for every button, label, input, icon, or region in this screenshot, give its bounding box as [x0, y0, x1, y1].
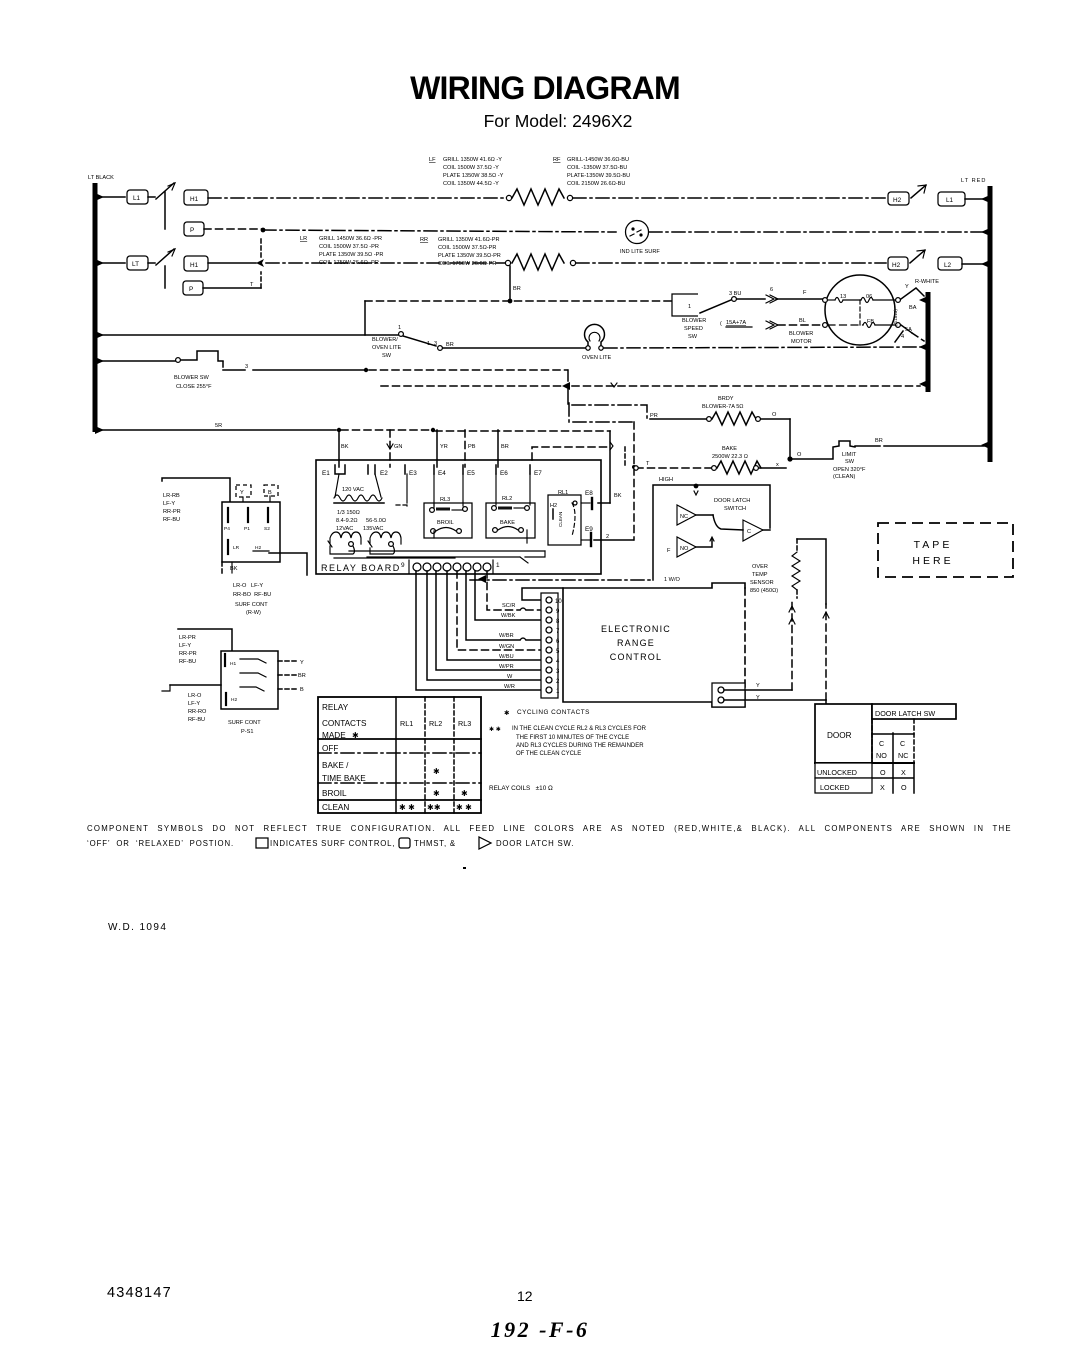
wire W/O dash-dot to ERC [470, 575, 680, 583]
svg-text:3: 3 [434, 341, 437, 347]
svg-text:L2: L2 [944, 262, 952, 269]
svg-text:✱ ✱: ✱ ✱ [489, 726, 501, 733]
svg-text:BLOWER: BLOWER [789, 331, 813, 337]
label element table LF [429, 157, 504, 187]
svg-text:H1: H1 [230, 661, 236, 667]
svg-text:TEMP: TEMP [752, 572, 768, 578]
terminal P row4 [183, 281, 203, 295]
svg-text:W/BK: W/BK [501, 613, 516, 619]
svg-text:BROIL: BROIL [322, 789, 347, 798]
wire harness pin4 [447, 571, 541, 660]
wire PB into E4 [465, 430, 476, 467]
svg-text:RL2: RL2 [429, 719, 442, 728]
svg-text:OVEN LITE: OVEN LITE [582, 355, 611, 361]
svg-text:TAPE: TAPE [914, 539, 953, 551]
svg-text:LR-PR: LR-PR [179, 635, 196, 641]
surf cont P-S1 box [221, 651, 306, 709]
svg-text:W: W [507, 674, 513, 680]
svg-text:NO: NO [876, 751, 887, 760]
wire harness pin2 [427, 571, 541, 680]
svg-text:12: 12 [517, 1288, 533, 1304]
svg-text:LR: LR [233, 545, 240, 551]
svg-text:L1: L1 [133, 195, 141, 202]
svg-text:THMST, &: THMST, & [414, 839, 456, 848]
wire oven lite row y348 [443, 347, 585, 349]
svg-text:12VAC: 12VAC [336, 526, 353, 532]
svg-text:BR: BR [513, 286, 521, 292]
svg-text:RANGE: RANGE [617, 638, 655, 648]
svg-text:1: 1 [398, 325, 401, 331]
label transformer ratings [336, 510, 386, 532]
svg-text:✱: ✱ [504, 710, 509, 717]
note cycling contacts [504, 709, 590, 717]
op-amp symbol NO door latch [667, 537, 714, 557]
svg-text:1: 1 [688, 304, 691, 310]
svg-text:LOCKED: LOCKED [820, 783, 850, 792]
svg-text:LF: LF [429, 157, 436, 163]
svg-text:SURF CONT: SURF CONT [228, 720, 261, 726]
svg-text:E4: E4 [438, 470, 446, 477]
resistor surface element row3 [505, 254, 575, 270]
svg-text:BLOWER-7A 5Ω: BLOWER-7A 5Ω [702, 404, 744, 410]
wire oven circuit feed y301 [365, 301, 697, 335]
svg-text:E8: E8 [585, 490, 593, 497]
svg-text:LF-Y: LF-Y [179, 643, 191, 649]
svg-text:GN: GN [394, 444, 402, 450]
svg-text:NC: NC [680, 514, 688, 520]
svg-text:CLEAN: CLEAN [558, 512, 563, 527]
svg-text:H2: H2 [231, 697, 237, 703]
svg-text:LF-Y: LF-Y [188, 701, 200, 707]
connector ERC main [541, 593, 558, 698]
terminal H1 row1 [184, 190, 208, 205]
thermostat surf cont R-W box [222, 502, 280, 574]
svg-text:LR-O LF-Y: LR-O LF-Y [233, 583, 263, 589]
svg-text:COIL 1350W 44.5Ω -Y: COIL 1350W 44.5Ω -Y [443, 181, 499, 187]
terminal L2 row3 right [938, 257, 962, 270]
svg-text:Y: Y [905, 284, 909, 290]
svg-text:C: C [900, 739, 905, 748]
svg-text:OVER: OVER [752, 564, 768, 570]
svg-text:Y: Y [300, 660, 304, 666]
svg-text:O: O [797, 452, 802, 458]
svg-text:BLOWER: BLOWER [682, 318, 706, 324]
terminal H2 row3 [888, 257, 908, 270]
svg-text:S2: S2 [264, 526, 270, 532]
svg-text:COIL 1500W 37.5Ω -Y: COIL 1500W 37.5Ω -Y [443, 165, 499, 171]
svg-text:‘OFF’ OR ‘RELAXED’ POSTION.: ‘OFF’ OR ‘RELAXED’ POSTION. [87, 839, 234, 848]
terminal E6 [496, 465, 508, 477]
svg-text:BL: BL [799, 318, 806, 324]
svg-text:RF-BU: RF-BU [188, 717, 205, 723]
svg-text:T: T [646, 461, 650, 467]
svg-text:LT BLACK: LT BLACK [88, 175, 114, 181]
svg-text:X: X [880, 783, 885, 792]
node L1 RED right bus [961, 178, 990, 462]
switch blower speed second throw [720, 318, 820, 345]
svg-text:BLOWER SW: BLOWER SW [174, 375, 210, 381]
svg-text:56-5.0Ω: 56-5.0Ω [366, 518, 386, 524]
wire aux pin to sensor bottom [724, 598, 795, 690]
svg-text:DOOR LATCH SW: DOOR LATCH SW [875, 709, 935, 718]
wire T from relay board [532, 447, 608, 460]
svg-text:CYCLING CONTACTS: CYCLING CONTACTS [517, 709, 590, 716]
svg-text:INDICATES SURF CONTROL,: INDICATES SURF CONTROL, [270, 839, 395, 848]
svg-text:OFF: OFF [322, 744, 338, 753]
wire harness pin6 [466, 571, 541, 640]
switch motor lo contact [895, 325, 924, 342]
wire row1 dash-dot to resistor [208, 197, 506, 199]
wire surf2 left feed [162, 685, 221, 691]
title [410, 70, 680, 131]
svg-text:RELAY COILS ±10 Ω: RELAY COILS ±10 Ω [489, 785, 553, 792]
wire BK into E1 [339, 430, 349, 467]
stray mark [463, 867, 466, 869]
svg-text:AND RL3 CYCLES DURING THE REMA: AND RL3 CYCLES DURING THE REMAINDER [516, 743, 644, 749]
svg-text:5A: 5A [905, 327, 912, 333]
svg-text:RF: RF [553, 157, 561, 163]
svg-text:B: B [268, 490, 272, 496]
svg-text:LT: LT [132, 261, 139, 268]
svg-text:8.4-9.2Ω: 8.4-9.2Ω [336, 518, 358, 524]
svg-text:1/3 150Ω: 1/3 150Ω [337, 510, 360, 516]
wire row3 to H2 [576, 262, 886, 264]
svg-text:BROIL: BROIL [437, 520, 454, 526]
svg-text:OF THE CLEAN CYCLE: OF THE CLEAN CYCLE [516, 751, 581, 757]
wire harness pin8 [475, 571, 541, 620]
wire E4 to RL3 [434, 474, 463, 506]
svg-text:COIL -1350W 37.5Ω-BU: COIL -1350W 37.5Ω-BU [567, 165, 627, 171]
note line 2 [87, 837, 574, 849]
svg-text:P1: P1 [244, 526, 250, 532]
svg-text:H2: H2 [550, 503, 557, 509]
svg-text:HIGH: HIGH [659, 477, 673, 483]
svg-text:LR-RB: LR-RB [163, 493, 180, 499]
svg-text:BR: BR [875, 438, 883, 444]
svg-text:BK: BK [230, 566, 238, 572]
relay board outline [316, 460, 601, 574]
svg-text:GRILL 1350W 41.6Ω-PR: GRILL 1350W 41.6Ω-PR [438, 237, 500, 243]
svg-text:GRILL 1450W 36.6Ω -PR: GRILL 1450W 36.6Ω -PR [319, 236, 382, 242]
svg-text:COIL 1750W 26.6Ω-PR: COIL 1750W 26.6Ω-PR [438, 261, 496, 267]
terminal tag B surf1 [264, 485, 278, 502]
terminal H2 row1 [888, 192, 909, 205]
svg-text:1 W/O: 1 W/O [664, 577, 680, 583]
svg-text:RL3: RL3 [440, 497, 450, 503]
svg-text:SENSOR: SENSOR [750, 580, 774, 586]
footer part number 4348147 [107, 1285, 172, 1301]
relay RL1 [548, 490, 581, 545]
svg-text:WIRING DIAGRAM: WIRING DIAGRAM [410, 70, 680, 106]
svg-text:BAKE: BAKE [500, 520, 515, 526]
terminal LT row3 [127, 256, 148, 270]
svg-text:HERE: HERE [912, 555, 953, 567]
terminal E2 [368, 465, 388, 477]
wire coil outputs [330, 546, 545, 563]
svg-text:SURF CONT: SURF CONT [235, 602, 268, 608]
svg-text:BK: BK [341, 444, 349, 450]
svg-text:SWITCH: SWITCH [724, 506, 746, 512]
svg-text:BAKE: BAKE [722, 446, 737, 452]
svg-text:1: 1 [496, 562, 500, 569]
svg-text:F: F [667, 548, 671, 554]
transformer primary [334, 474, 384, 503]
label element table RR [420, 237, 501, 267]
terminal P row2 [184, 222, 204, 236]
switch blower SW close 255 [99, 351, 223, 390]
wire SR corner down to BK [598, 431, 622, 503]
table door latch sw [815, 704, 956, 793]
svg-text:E5: E5 [467, 470, 475, 477]
svg-text:LF-Y: LF-Y [163, 501, 175, 507]
wire oven lite to inner bus [604, 347, 920, 348]
svg-text:✱ ✱: ✱ ✱ [399, 803, 415, 812]
lamp OVEN LITE [582, 324, 611, 361]
svg-text:C: C [879, 739, 884, 748]
svg-text:UNLOCKED: UNLOCKED [817, 768, 857, 777]
wire blower sw out y370 [223, 364, 568, 381]
wire harness relay to ERC pin1 [416, 571, 541, 690]
svg-text:O: O [880, 768, 886, 777]
wire row3 mid [208, 259, 505, 267]
wire row2 drop from switch [164, 192, 166, 229]
svg-text:3: 3 [245, 364, 248, 370]
svg-text:P: P [189, 286, 193, 293]
svg-text:COIL 1500W 37.5Ω-PR: COIL 1500W 37.5Ω-PR [438, 245, 496, 251]
svg-text:(: ( [720, 321, 722, 327]
svg-text:E2: E2 [380, 470, 388, 477]
table relay contacts [318, 697, 481, 813]
svg-text:ELECTRONIC: ELECTRONIC [601, 624, 671, 634]
wire E6 E7 to RL2 [496, 474, 530, 543]
svg-text:✱: ✱ [461, 789, 468, 798]
svg-text:LR: LR [300, 236, 307, 242]
svg-text:BLOWER/: BLOWER/ [372, 337, 398, 343]
svg-text:R-WHITE: R-WHITE [915, 279, 939, 285]
wire vertical x634 bake feed [632, 422, 636, 540]
footer page number 12 [517, 1288, 533, 1304]
wire row2 [204, 228, 616, 233]
note relay coils [489, 785, 553, 792]
svg-text:PLATE-1350W 39.5Ω-BU: PLATE-1350W 39.5Ω-BU [567, 173, 630, 179]
label surf cont 2 bottom [188, 693, 261, 735]
svg-text:P4: P4 [224, 526, 230, 532]
wire dash-dot y422 x569-x634 [568, 386, 632, 422]
terminal L1 row1 [127, 190, 148, 204]
wire SR row y430 [99, 423, 610, 432]
svg-text:850 (450Ω): 850 (450Ω) [750, 588, 778, 594]
wire motor vertical label [893, 309, 898, 326]
svg-text:RELAY BOARD: RELAY BOARD [321, 563, 401, 573]
svg-text:NC: NC [898, 751, 908, 760]
svg-text:MOTOR: MOTOR [791, 339, 812, 345]
svg-text:BK: BK [614, 493, 622, 499]
terminal tag Y surf1 [236, 485, 251, 502]
svg-text:PLATE 1350W 38.5Ω -Y: PLATE 1350W 38.5Ω -Y [443, 173, 504, 179]
wire row y335 from left bus [99, 334, 398, 336]
svg-text:GRILL 1350W 41.6Ω -Y: GRILL 1350W 41.6Ω -Y [443, 157, 502, 163]
svg-text:SW: SW [382, 353, 392, 359]
relay RL3 [424, 497, 472, 538]
svg-text:E6: E6 [500, 470, 508, 477]
switch blower speed SW [672, 287, 822, 340]
svg-text:COIL 1500W 37.5Ω -PR: COIL 1500W 37.5Ω -PR [319, 244, 379, 250]
svg-text:PLATE 1350W 39.5Ω -PR: PLATE 1350W 39.5Ω -PR [319, 252, 383, 258]
terminal E9 [581, 526, 593, 546]
svg-text:SW: SW [688, 334, 698, 340]
terminal E7 [530, 465, 542, 477]
svg-text:W/BU: W/BU [499, 654, 514, 660]
svg-text:P: P [190, 227, 194, 234]
wire harness pin3 [436, 571, 541, 670]
wire HIGH rail door latch [653, 477, 770, 580]
svg-text:✱: ✱ [433, 767, 440, 776]
svg-text:PLATE 1350W 39.5Ω-PR: PLATE 1350W 39.5Ω-PR [438, 253, 501, 259]
svg-text:GRILL-1450W 36.6Ω-BU: GRILL-1450W 36.6Ω-BU [567, 157, 629, 163]
svg-text:Y: Y [240, 490, 244, 496]
svg-text:H1: H1 [190, 196, 199, 203]
svg-text:LIMIT: LIMIT [842, 452, 857, 458]
terminal E5 [463, 465, 475, 477]
svg-text:Y: Y [756, 683, 760, 689]
svg-text:RR: RR [420, 237, 428, 243]
svg-text:RL1: RL1 [400, 719, 413, 728]
svg-text:BRDY: BRDY [718, 396, 734, 402]
svg-text:B: B [300, 687, 304, 693]
svg-text:COMPONENT SYMBOLS DO NOT REFLE: COMPONENT SYMBOLS DO NOT REFLECT TRUE CO… [87, 824, 1012, 833]
svg-text:BAKE /: BAKE / [322, 761, 349, 770]
switch row3 [148, 249, 175, 265]
switch row3 right [910, 250, 925, 263]
svg-text:15A+7A: 15A+7A [726, 320, 746, 326]
svg-text:RL3: RL3 [458, 719, 471, 728]
wire harness pin5 [457, 571, 541, 650]
wire row3 to right bus [962, 263, 984, 265]
label element table RF [553, 157, 630, 187]
svg-text:H2: H2 [893, 197, 902, 204]
svg-text:E7: E7 [534, 470, 542, 477]
wire dash-dot y405 to BRDY [572, 405, 658, 419]
svg-text:CLOSE 255°F: CLOSE 255°F [176, 384, 212, 390]
svg-text:2500W 22.3 Ω: 2500W 22.3 Ω [712, 454, 748, 460]
svg-text:BR: BR [298, 673, 306, 679]
svg-text:H2: H2 [892, 262, 901, 269]
svg-text:✱✱: ✱✱ [427, 803, 441, 812]
label callout surf cont 1 [162, 478, 230, 523]
inductor secondary coil 1 [328, 532, 361, 547]
svg-text:COIL 2150W 26.6Ω-BU: COIL 2150W 26.6Ω-BU [567, 181, 625, 187]
node L1 BLACK left bus [88, 175, 114, 434]
svg-text:CONTROL: CONTROL [610, 652, 662, 662]
svg-text:LR-O: LR-O [188, 693, 202, 699]
wire row2 to right bus [649, 231, 984, 233]
svg-text:135VAC: 135VAC [363, 526, 383, 532]
switch row1 [148, 183, 175, 199]
svg-text:CONTACTS: CONTACTS [322, 719, 367, 728]
svg-text:9: 9 [401, 562, 405, 569]
svg-text:FB: FB [867, 319, 874, 325]
svg-text:✱: ✱ [352, 731, 359, 740]
svg-text:x: x [776, 462, 779, 468]
svg-text:PR: PR [650, 413, 658, 419]
note line 1 [87, 824, 1012, 833]
svg-text:W/PR: W/PR [499, 664, 514, 670]
svg-text:F: F [803, 290, 807, 296]
terminal H1 row3 [184, 256, 208, 271]
svg-text:1: 1 [427, 341, 430, 347]
svg-text:L1: L1 [946, 197, 954, 204]
resistor BAKE element [634, 446, 802, 474]
terminal L1 row1 right [938, 192, 965, 206]
svg-text:DOOR: DOOR [827, 731, 852, 740]
wire aux pin to sensor top [724, 539, 829, 704]
wire row1 to right bus [965, 198, 984, 200]
svg-text:P-S1: P-S1 [241, 729, 253, 735]
svg-text:SC/R: SC/R [502, 603, 515, 609]
wire harness pin9 [487, 571, 541, 610]
footer handwritten 192-F-6 [491, 1317, 590, 1342]
terminal E3 [393, 465, 417, 506]
svg-text:192 -F-6: 192 -F-6 [491, 1317, 590, 1342]
terminal E8 [581, 490, 593, 509]
wire row1 to H2 [573, 197, 886, 199]
wire GN into E2 [387, 430, 402, 467]
switch blower/oven lite [372, 325, 454, 359]
svg-text:TIME BAKE: TIME BAKE [322, 774, 366, 783]
svg-text:For Model: 2496X2: For Model: 2496X2 [484, 111, 633, 131]
relay RL2 [486, 496, 535, 538]
label callout surf cont 2 [178, 629, 232, 665]
wire pin10 hook [522, 588, 563, 600]
svg-text:IND LITE SURF: IND LITE SURF [620, 249, 660, 255]
svg-text:4: 4 [901, 334, 904, 340]
terminal E1 [322, 465, 345, 477]
svg-text:13: 13 [840, 294, 846, 300]
wire BR drop from row3 [508, 266, 521, 303]
svg-text:COIL 1750W 26.6Ω -PR: COIL 1750W 26.6Ω -PR [319, 260, 379, 266]
lamp indicator IND LITE SURF [620, 221, 660, 256]
svg-text:RR-PR: RR-PR [179, 651, 197, 657]
switch row1 right [911, 185, 926, 198]
svg-text:NO: NO [680, 546, 689, 552]
wire surf1 to label [269, 553, 307, 575]
svg-text:(G1813): (G1813) [893, 309, 898, 326]
pin numbers ERC [555, 599, 562, 695]
svg-text:BR: BR [501, 444, 509, 450]
svg-text:OPEN 320°F: OPEN 320°F [833, 467, 866, 473]
svg-text:2: 2 [606, 534, 609, 540]
svg-text:IN THE CLEAN CYCLE RL2 & RL3 C: IN THE CLEAN CYCLE RL2 & RL3 CYCLES FOR [512, 726, 647, 732]
connector ERC sensor aux [712, 683, 745, 707]
wire row4 [203, 236, 261, 288]
resistor oven temp sensor [750, 539, 800, 598]
svg-text:RELAY: RELAY [322, 703, 349, 712]
label element table LR [300, 236, 383, 266]
svg-text:DOOR LATCH SW.: DOOR LATCH SW. [496, 839, 574, 848]
svg-text:H2: H2 [255, 545, 261, 551]
svg-text:O: O [901, 783, 907, 792]
label DOOR LATCH SWITCH [714, 498, 750, 512]
svg-text:RF-BU: RF-BU [179, 659, 196, 665]
svg-text:OVEN LITE: OVEN LITE [372, 345, 401, 351]
wire YR into E3 [437, 430, 448, 467]
svg-text:120 VAC: 120 VAC [342, 487, 364, 493]
svg-text:THE FIRST 10 MINUTES OF THE: THE FIRST 10 MINUTES OF THE CYCLE [516, 735, 629, 741]
switch limit SW open 320F [790, 438, 984, 480]
svg-text:RR-RO: RR-RO [188, 709, 207, 715]
svg-text:CLEAN: CLEAN [322, 803, 349, 812]
switch motor hi contact [901, 284, 924, 311]
